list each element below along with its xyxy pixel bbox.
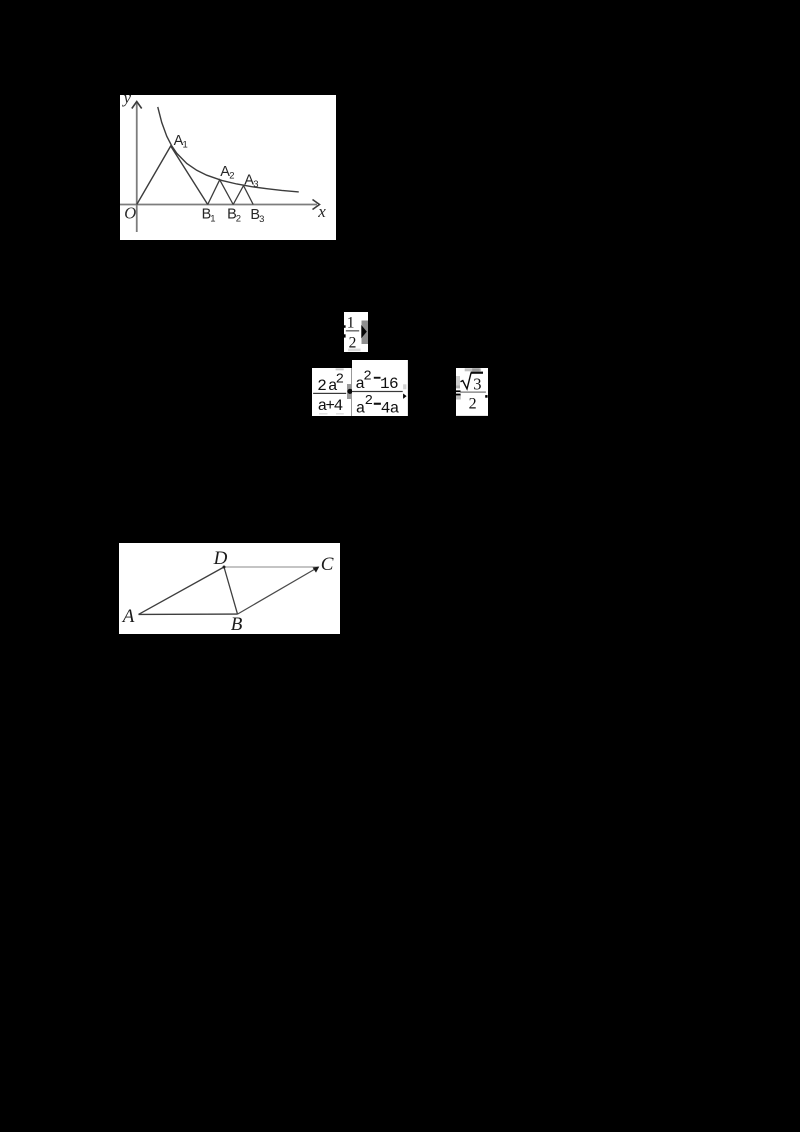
gray smudge bottom left — [319, 413, 327, 414]
fraction bar — [345, 330, 358, 331]
svg-text:y: y — [122, 95, 132, 107]
triangle B1-A2-B2 — [208, 180, 234, 205]
svg-text:2: 2 — [365, 392, 373, 408]
black cursor arrow — [361, 325, 366, 338]
white patch background — [312, 368, 352, 416]
fraction bar — [352, 390, 403, 391]
white patch background — [352, 360, 408, 416]
gray smudge left mid — [456, 385, 460, 388]
svg-text:3: 3 — [473, 374, 481, 393]
svg-text:C: C — [321, 553, 334, 574]
gray artifact block — [347, 384, 353, 399]
vertex dot D — [223, 565, 226, 568]
gray fraction bar — [460, 391, 486, 393]
x-axis — [120, 204, 317, 206]
white figure background — [119, 543, 340, 635]
gray smudge bottom right — [336, 413, 344, 414]
formula: 2a^2 over a+4 — [312, 368, 352, 416]
gray block with multiplication dot between fractions — [347, 384, 353, 399]
svg-text:6: 6 — [389, 374, 399, 392]
side A-D — [139, 567, 225, 614]
gray smudge left lower — [456, 395, 461, 400]
svg-text:D: D — [213, 547, 228, 568]
white patch background — [344, 312, 369, 352]
svg-text:x: x — [317, 202, 326, 221]
clipped equals dash top — [344, 325, 346, 327]
y-axis arrowhead — [132, 102, 142, 109]
gray smudge top dark — [472, 368, 480, 371]
radical sign — [460, 373, 471, 389]
multiplication dot — [347, 389, 352, 394]
black mark right edge — [485, 395, 487, 398]
arrowhead at C — [313, 566, 320, 572]
svg-text:2: 2 — [229, 171, 234, 182]
side A-B — [139, 613, 238, 615]
side B-C — [238, 567, 319, 614]
black comma triangle — [403, 393, 406, 398]
svg-text:2: 2 — [468, 395, 476, 412]
svg-text:2: 2 — [336, 371, 344, 387]
gray artifact block — [361, 320, 368, 343]
svg-text:1: 1 — [210, 213, 215, 224]
svg-text:B: B — [231, 613, 243, 634]
denominator minus — [374, 402, 381, 404]
triangle O-A1-B1 — [137, 146, 208, 205]
fraction bar — [313, 393, 346, 394]
gray smudge left upper — [456, 376, 460, 385]
figure: parallelogram ABCD with diagonal — [119, 543, 340, 635]
formula: sqrt(3) over 2 — [456, 368, 488, 416]
svg-text:2: 2 — [317, 377, 327, 395]
y-axis — [136, 102, 138, 232]
clipped equals bottom — [456, 393, 461, 395]
hyperbola curve — [158, 107, 299, 192]
svg-text:a: a — [390, 399, 400, 416]
svg-text:3: 3 — [259, 214, 264, 225]
white patch background — [456, 368, 488, 416]
svg-text:1: 1 — [346, 314, 354, 331]
white figure background — [120, 95, 336, 240]
gray smudge top light — [464, 368, 480, 371]
svg-text:A: A — [121, 606, 135, 627]
numerator minus — [374, 376, 381, 378]
svg-text:O: O — [124, 204, 136, 223]
gray smudge bottom — [348, 348, 360, 351]
clipped equals top — [456, 390, 460, 392]
svg-text:3: 3 — [253, 179, 258, 190]
radical overbar — [470, 371, 482, 373]
svg-text:2: 2 — [364, 368, 372, 384]
formula: (a^2-16) over (a^2-4a) — [352, 360, 408, 416]
svg-text:2: 2 — [236, 213, 241, 224]
gray mark right edge — [403, 384, 406, 389]
formula: one half — [344, 312, 369, 352]
diagonal D-B — [224, 567, 238, 614]
gray smudge top — [336, 368, 344, 370]
clipped equals dash bottom — [344, 334, 346, 337]
svg-text:4: 4 — [334, 397, 344, 415]
figure: hyperbola graph with triangles — [120, 95, 336, 240]
side D-C — [224, 566, 319, 568]
svg-text:1: 1 — [183, 140, 188, 151]
x-axis arrowhead — [313, 200, 320, 210]
triangle B2-A3-B3 — [233, 186, 253, 205]
